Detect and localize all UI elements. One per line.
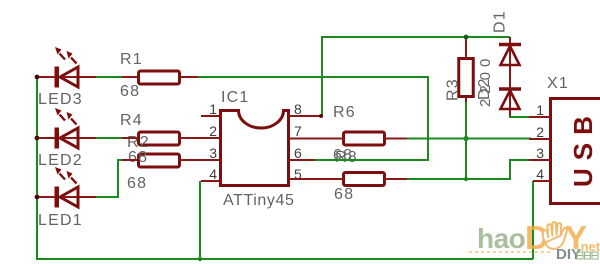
pin 3 stub of X1 [529,159,550,161]
svg-text:68: 68 [128,149,148,166]
junction node at LED2 cathode [35,136,40,141]
wire: LED1 anode up to R2 [95,160,124,197]
pin 6 stub of IC1 [290,159,315,161]
svg-text:6: 6 [294,145,302,161]
resistor R4 body [139,132,180,145]
svg-text:D2: D2 [476,78,493,100]
wire: LED3 row lead [37,76,96,78]
svg-text:1: 1 [536,102,544,118]
wire: R2 right lead to IC pin3 [180,159,219,161]
pin 1 stub of IC1 [201,115,219,117]
pin 7 stub of IC1 to R6 [290,138,344,140]
svg-text:hao: hao [477,223,526,254]
diode D2 symbol [499,89,521,109]
USB connector X1 body [551,99,600,204]
svg-text:7: 7 [294,123,302,139]
LED3 symbol [55,47,79,88]
svg-text:LED3: LED3 [38,91,83,108]
pin 4 stub of IC1 [201,180,219,182]
wire: R1 left lead [122,76,137,78]
junction node at IC pin8 / VCC riser [319,114,323,118]
junction node R3 bottom on D- line [463,136,468,141]
junction node ground rail at IC pin4 [198,257,202,261]
wire: VCC net IC pin8 up and right to diode D1 top [322,37,510,116]
svg-text:IC1: IC1 [221,89,250,106]
svg-text:R3: R3 [445,78,462,101]
svg-text:2: 2 [536,124,544,140]
wire: R3 bottom vertical to D+ jog [465,101,467,179]
svg-text:1: 1 [209,101,217,117]
svg-text:68: 68 [120,83,140,100]
pin 2 stub of X1 [529,138,550,140]
wire: R1 right lead [180,76,198,78]
wire: R4 right lead to IC pin2 [180,137,219,139]
wire: R8 to USB pin3 (jog up) [406,160,531,179]
junction node at LED1 cathode [35,195,40,200]
svg-text:D1: D1 [492,10,509,33]
watermark logo haoDIY.net [469,219,600,263]
wire: R8 right lead [385,178,408,180]
svg-text:R1: R1 [120,51,143,68]
svg-text:R4: R4 [120,112,143,129]
resistor R1 body [139,71,180,84]
svg-text:LED1: LED1 [38,212,83,229]
svg-text:X1: X1 [547,75,569,92]
wire: LED1 row lead [37,196,96,198]
svg-text:2: 2 [209,123,217,139]
svg-text:4: 4 [209,166,217,182]
wire: IC pin4 ground drop [199,181,201,259]
wire: R6 right lead [385,138,408,140]
junction node on R8 line [464,177,468,181]
IC1 ATTiny45 body [221,111,289,186]
wire: D2 bottom to USB pin1 [510,115,531,117]
diode D1 symbol [499,45,521,66]
resistor R6 body [344,132,385,145]
wire: R6 to USB pin2 [406,138,531,140]
wire: D1-D2 through lead [509,37,511,116]
wire: R1 to IC pin6 (routed right and down) [196,77,428,160]
svg-text:68: 68 [334,186,354,203]
wire: R3 bottom lead [465,97,467,102]
junction node at LED3 cathode [35,75,40,80]
svg-text:USB: USB [568,108,598,187]
wire: LED2 row lead [37,137,96,139]
wire: USB pin4 ground drop [532,181,534,259]
svg-text:3: 3 [536,145,544,161]
pin 4 stub of X1 [533,180,550,182]
LED2 symbol [55,108,79,149]
svg-text:8: 8 [294,101,302,117]
LED1 symbol [55,167,79,208]
wire: LED2 anode to R4 [95,137,124,139]
junction node R3 top on VCC rail [464,35,469,40]
wire: R2 left lead [122,159,137,161]
svg-text:R8: R8 [335,149,358,166]
resistor R2 body [139,154,180,167]
pin 5 stub of IC1 to R8 [290,178,344,180]
wire: LED3 anode to R1 [95,76,124,78]
pin 8 stub of IC1 [290,115,322,117]
resistor R8 body [344,173,385,186]
wire: R3 top lead [465,37,467,59]
resistor R3 body (vertical) [459,59,474,97]
wire: ground rail (bottom) [36,258,533,260]
wire: R4 left lead [122,137,137,139]
svg-text:LED2: LED2 [38,152,83,169]
svg-text:4: 4 [536,166,544,182]
wire: LED cathode rail (left vertical) [36,77,38,259]
svg-text:3: 3 [209,145,217,161]
svg-text:68: 68 [127,175,147,192]
svg-text:ATTiny45: ATTiny45 [223,192,295,209]
pin 1 stub of X1 [529,116,550,118]
svg-text:R6: R6 [333,104,356,121]
